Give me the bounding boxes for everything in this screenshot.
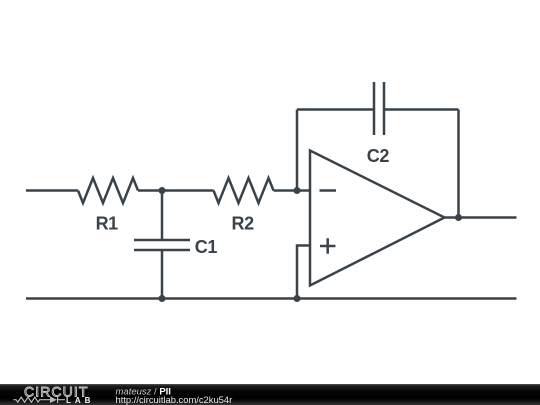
node C junction dot	[294, 295, 301, 302]
wire C1 branch bottom	[161, 250, 164, 299]
wire feedback top right	[384, 108, 459, 111]
wire op-amp non-inverting input to node C	[297, 246, 310, 299]
svg-text:R2: R2	[231, 214, 254, 234]
wire C1 branch top	[161, 191, 164, 241]
svg-text:R1: R1	[96, 214, 119, 234]
logo diode	[50, 396, 57, 403]
wire node A to R2	[162, 189, 214, 192]
op-amp plus pin symbol	[320, 238, 336, 254]
svg-text:C1: C1	[195, 237, 218, 257]
resistor R2	[214, 178, 274, 203]
footer bar	[0, 384, 540, 405]
node output junction dot	[455, 214, 462, 221]
svg-text:C2: C2	[367, 146, 390, 166]
svg-text:http://circuitlab.com/c2ku54r: http://circuitlab.com/c2ku54r	[116, 394, 233, 405]
wire R2 to node B	[274, 189, 298, 192]
wire input left	[26, 189, 78, 192]
op-amp U1	[310, 151, 445, 286]
wire feedback right vertical	[457, 110, 460, 218]
wire R1 to node A	[138, 189, 162, 192]
node B junction dot	[294, 187, 301, 194]
op-amp minus pin symbol	[320, 189, 337, 192]
wire feedback left vertical	[296, 110, 299, 191]
wire bottom rail	[26, 297, 517, 300]
node A junction dot	[159, 187, 166, 194]
wire node B to op-amp inverting input	[297, 189, 310, 192]
svg-text:LAB: LAB	[66, 396, 94, 405]
capacitor C1	[134, 240, 190, 250]
wire feedback top left	[297, 108, 374, 111]
resistor R1	[78, 178, 138, 203]
capacitor C2	[374, 82, 384, 135]
node C1-ground junction dot	[159, 295, 166, 302]
wire output	[445, 216, 517, 219]
logo resistor zigzag	[14, 397, 51, 402]
